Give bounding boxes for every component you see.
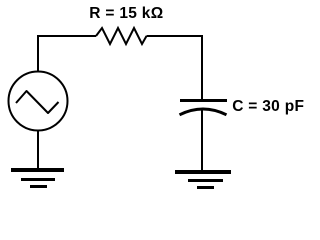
- ground (right) bar 2: [188, 179, 223, 182]
- wire: top horizontal from corner to resistor left lead: [37, 35, 96, 37]
- ground (left) bar 3: [30, 185, 47, 188]
- wire: right vertical from corner down to capacitor top plate: [201, 35, 203, 100]
- svg-text:R = 15 kΩ: R = 15 kΩ: [89, 5, 163, 22]
- wire: left vertical from source top to top-left corner: [37, 36, 39, 71]
- wire: from source bottom to left ground: [37, 131, 39, 169]
- svg-text:C = 30 pF: C = 30 pF: [232, 98, 304, 115]
- ground (right) bar 1: [175, 170, 231, 174]
- capacitor C top plate: [180, 99, 227, 102]
- AC source V1 circle: [9, 72, 68, 131]
- AC source sine symbol: [16, 91, 59, 113]
- wire: top horizontal from resistor to top-right corner: [147, 35, 203, 37]
- wire: from capacitor bottom plate to right ground: [201, 109, 203, 171]
- ground (left) bar 2: [21, 178, 55, 181]
- capacitor C curved bottom plate: [180, 109, 227, 115]
- ground (left) bar 1: [11, 168, 64, 172]
- ground (right) bar 3: [197, 186, 214, 189]
- resistor R (zigzag): [96, 28, 147, 44]
